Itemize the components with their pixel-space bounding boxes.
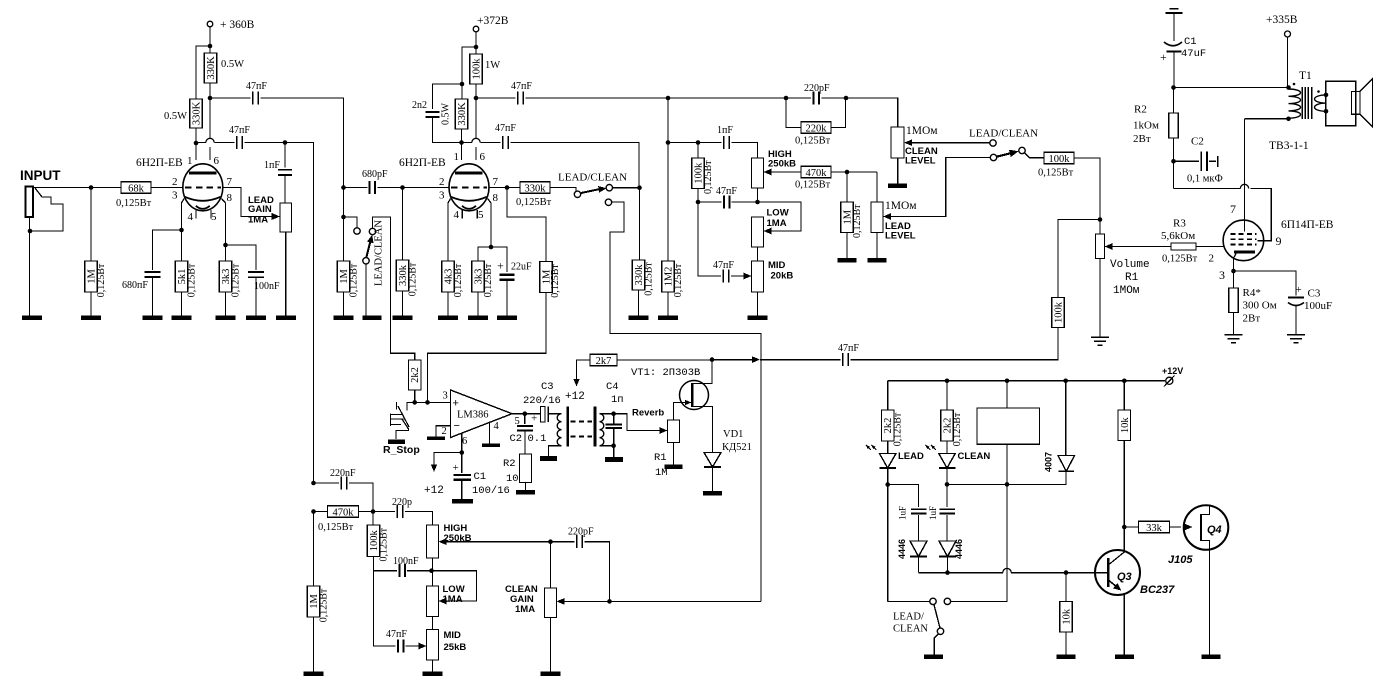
grid wire stage2 xyxy=(403,187,450,189)
svg-text:5: 5 xyxy=(211,211,217,223)
ground CLEAN GAIN pot xyxy=(541,672,561,677)
svg-text:LEAD: LEAD xyxy=(898,451,924,462)
svg-text:0,125Вт: 0,125Вт xyxy=(952,412,963,446)
node B+ output filter xyxy=(1171,85,1176,90)
volume wiper xyxy=(1105,243,1113,250)
switch4 lever xyxy=(934,605,940,628)
svg-text:2: 2 xyxy=(172,176,178,188)
resistor 3k3 cathode B stage1 xyxy=(225,245,227,261)
chassis ground above C1 xyxy=(1166,12,1183,14)
svg-text:VT1: 2П303В: VT1: 2П303В xyxy=(631,367,700,379)
terminal +335V xyxy=(1285,31,1291,37)
svg-text:4: 4 xyxy=(494,421,500,432)
ground CLEAN LEVEL pot xyxy=(888,184,907,189)
lead level wiper xyxy=(883,213,891,220)
resistor 1M lead level node xyxy=(846,172,848,202)
Q3 collector xyxy=(1108,527,1124,565)
svg-text:0,1 мкФ: 0,1 мкФ xyxy=(1187,174,1223,185)
resistor 330k to ground (lead node) xyxy=(639,188,641,260)
svg-text:LEAD/CLEAN: LEAD/CLEAN xyxy=(374,220,385,286)
switch3 contact a xyxy=(990,140,996,146)
node clean mix xyxy=(607,599,612,604)
wire filter to transformer xyxy=(1174,87,1289,89)
resistor 1M stage2 output xyxy=(540,262,553,293)
node LED clean bottom xyxy=(945,482,950,487)
svg-text:1МОм: 1МОм xyxy=(885,200,917,212)
ground R2 xyxy=(516,490,535,495)
node base 10k xyxy=(1064,570,1069,575)
svg-text:1МОм: 1МОм xyxy=(1113,285,1140,297)
svg-text:LEVEL: LEVEL xyxy=(885,231,916,242)
node 220k left xyxy=(784,96,789,101)
wire led clean to relay node xyxy=(947,483,1007,485)
svg-text:LEAD/CLEAN: LEAD/CLEAN xyxy=(558,172,627,184)
lead gain wiper arrow xyxy=(272,213,281,220)
resistor 2k2 LED clean xyxy=(946,381,948,410)
switch1 output wire to lm386 node xyxy=(373,217,415,360)
node rail 4007 xyxy=(1063,379,1068,384)
switch1 lever xyxy=(366,237,371,258)
svg-text:300 Ом: 300 Ом xyxy=(1243,300,1277,312)
svg-text:470k: 470k xyxy=(333,507,355,518)
node plate B stage1 xyxy=(208,96,213,101)
svg-text:1МОм: 1МОм xyxy=(906,125,938,137)
svg-text:100uF: 100uF xyxy=(1304,300,1332,312)
node 220k right xyxy=(844,96,849,101)
wire screen feed with hop xyxy=(1174,188,1241,190)
potentiometer R1 1M reverb xyxy=(668,420,680,443)
node clean feed top xyxy=(311,481,316,486)
svg-text:1МА: 1МА xyxy=(248,215,268,226)
svg-text:9: 9 xyxy=(1276,234,1282,248)
ground C1 xyxy=(452,499,473,504)
switch4 contact c xyxy=(937,628,943,634)
svg-text:0,125Вт: 0,125Вт xyxy=(186,263,197,297)
svg-text:J105: J105 xyxy=(1168,554,1193,566)
node B+ stage1 xyxy=(208,44,213,49)
svg-text:R1: R1 xyxy=(654,452,667,464)
ground 4k3 xyxy=(438,316,458,321)
svg-text:20kВ: 20kВ xyxy=(771,271,794,282)
svg-text:47uF: 47uF xyxy=(1181,48,1206,60)
svg-text:7: 7 xyxy=(227,176,233,188)
svg-text:100k: 100k xyxy=(472,58,483,80)
svg-text:220pF: 220pF xyxy=(568,527,594,538)
wire lead line xyxy=(668,142,698,144)
node lm386 out xyxy=(523,411,528,416)
svg-text:Volume: Volume xyxy=(1110,259,1150,271)
svg-text:3: 3 xyxy=(439,190,445,202)
svg-text:0,125Вт: 0,125Вт xyxy=(852,204,863,238)
resistor 330k 0.5W right (stage1) xyxy=(204,53,217,83)
pin 6 lead stage1 xyxy=(209,98,211,138)
svg-text:220nF: 220nF xyxy=(330,468,356,479)
svg-text:КД521: КД521 xyxy=(722,442,752,453)
switch3 contact b xyxy=(990,154,996,160)
relay K1 xyxy=(1006,381,1008,408)
input jack sleeve wire xyxy=(29,217,31,316)
svg-text:0,125Вт: 0,125Вт xyxy=(318,522,354,533)
switch2 clean path wire xyxy=(610,202,761,601)
svg-text:2k7: 2k7 xyxy=(596,356,612,367)
svg-text:1W: 1W xyxy=(485,60,500,71)
svg-text:680pF: 680pF xyxy=(362,169,388,180)
ground 330k grid stage2 xyxy=(393,316,413,321)
resistor 330k grid stage2 xyxy=(402,188,404,261)
node low top clean xyxy=(429,568,434,573)
svg-text:3: 3 xyxy=(172,190,178,202)
node cathode A xyxy=(179,228,184,233)
resistor 100k lead stack xyxy=(697,143,699,159)
svg-text:1kОм: 1kОм xyxy=(1133,120,1159,132)
svg-text:0.5W: 0.5W xyxy=(441,102,452,125)
node 1nF tap xyxy=(283,140,288,145)
node switch1 feed xyxy=(341,215,346,220)
wire clean mix to reverb return line xyxy=(610,600,762,602)
svg-text:5: 5 xyxy=(478,209,484,221)
svg-text:330k: 330k xyxy=(525,183,547,194)
wire 2k7 to +12 xyxy=(577,360,591,381)
node plate stage2 (pin6) xyxy=(474,96,479,101)
svg-text:47пF: 47пF xyxy=(716,186,737,197)
switch1 ground wire xyxy=(365,264,367,316)
svg-text:0,125Вт: 0,125Вт xyxy=(703,160,714,194)
terminal +360V xyxy=(207,21,213,27)
svg-text:0,125Вт: 0,125Вт xyxy=(116,198,152,209)
capacitor 100nF cathode bypass B xyxy=(226,245,257,270)
switch2 contact b xyxy=(606,185,612,191)
svg-text:ТВ3-1-1: ТВ3-1-1 xyxy=(1269,140,1309,152)
svg-text:100nF: 100nF xyxy=(254,281,280,292)
svg-text:47пF: 47пF xyxy=(495,123,516,134)
ground 10k base xyxy=(1057,654,1076,659)
svg-text:22uF: 22uF xyxy=(511,262,532,273)
svg-text:+372В: +372В xyxy=(477,15,509,27)
ground R_Stop xyxy=(388,440,405,445)
ground 5k1 xyxy=(172,316,192,321)
node B+ stage2 xyxy=(474,45,479,50)
switch1 contact a xyxy=(354,228,360,234)
LED LEAD xyxy=(866,445,871,450)
node cathode B stage2 xyxy=(489,245,494,250)
resistor 100k volume feed xyxy=(1044,152,1074,164)
switch3 output wire xyxy=(1025,153,1045,158)
svg-text:25kВ: 25kВ xyxy=(444,642,467,653)
pin 1 lead stage1 xyxy=(195,143,197,160)
svg-text:6: 6 xyxy=(462,436,467,447)
svg-text:10k: 10k xyxy=(1062,608,1073,625)
svg-text:3: 3 xyxy=(1219,268,1225,282)
svg-text:3: 3 xyxy=(443,391,448,402)
svg-text:4: 4 xyxy=(454,209,460,221)
pin 6 lead stage2 xyxy=(475,98,477,138)
node LED lead bottom xyxy=(885,482,890,487)
node input grid xyxy=(89,185,94,190)
wire to lead/clean switch1 xyxy=(344,188,358,228)
svg-text:0,125Вт: 0,125Вт xyxy=(1038,168,1074,179)
svg-text:1: 1 xyxy=(454,151,460,163)
svg-text:+: + xyxy=(531,413,537,425)
svg-text:1МА: 1МА xyxy=(767,218,787,229)
switch2 contact c xyxy=(605,199,611,205)
svg-text:4446: 4446 xyxy=(897,539,907,559)
svg-text:+12V: +12V xyxy=(1162,366,1183,376)
svg-text:330K: 330K xyxy=(192,101,203,125)
node lead stack input xyxy=(696,140,701,145)
svg-text:0,125Вт: 0,125Вт xyxy=(516,197,552,208)
node relay bottom xyxy=(1005,482,1010,487)
node rail 2k2 clean xyxy=(945,379,950,384)
resistor 330k 0.5W left (stage1) xyxy=(190,99,203,128)
svg-text:68k: 68k xyxy=(128,183,145,194)
svg-text:33k: 33k xyxy=(1146,523,1163,534)
resistor 2k7 xyxy=(590,354,617,366)
svg-text:7: 7 xyxy=(1230,202,1236,216)
node lead signal xyxy=(637,185,642,190)
resistor 220k xyxy=(786,98,801,128)
svg-text:CLEAN: CLEAN xyxy=(958,451,991,462)
svg-text:LOW: LOW xyxy=(767,208,789,219)
wire 330k to switch2 xyxy=(550,188,576,192)
node secondary hot xyxy=(611,411,616,416)
resistor 2k2 LED lead xyxy=(887,381,889,410)
svg-text:7: 7 xyxy=(493,176,499,188)
wire 68k to grid pin2 xyxy=(151,187,183,189)
node 680pF in xyxy=(341,185,346,190)
svg-text:4: 4 xyxy=(188,211,194,223)
resistor 100k mix xyxy=(1052,298,1065,328)
resistor 10k collector xyxy=(1123,381,1125,410)
wire plate-A line stage2 with hop xyxy=(462,142,472,144)
node primary bottom xyxy=(1286,117,1291,122)
ground 330k lead node xyxy=(629,316,649,321)
speaker xyxy=(1326,81,1356,126)
switch4 to ground xyxy=(934,634,938,655)
switch3 contact c xyxy=(1019,147,1025,153)
resistor 5k1 cathode A xyxy=(175,261,188,292)
svg-text:8: 8 xyxy=(227,192,233,204)
svg-text:−: − xyxy=(454,420,460,432)
switch2 wire to node xyxy=(613,187,640,189)
node rail relay xyxy=(1005,379,1010,384)
clean gain wiper xyxy=(557,598,565,605)
svg-text:+335В: +335В xyxy=(1266,14,1298,26)
svg-text:C4: C4 xyxy=(606,381,619,393)
svg-text:4007: 4007 xyxy=(1044,452,1054,472)
svg-text:C3: C3 xyxy=(541,381,554,393)
svg-text:5,6kОм: 5,6kОм xyxy=(1161,230,1195,242)
svg-text:R3: R3 xyxy=(1173,218,1186,230)
transformer TR1 core xyxy=(566,407,569,447)
ground 680nF xyxy=(143,316,163,321)
wire reverb mix to volume line xyxy=(712,359,753,361)
ground 100nF xyxy=(246,316,266,321)
transformer T1 core xyxy=(1301,87,1303,119)
ground MID clean xyxy=(423,672,443,677)
resistor R2 10 xyxy=(520,454,532,483)
svg-text:C1: C1 xyxy=(1184,36,1197,48)
node volume top xyxy=(1098,217,1103,222)
node 2n2 top xyxy=(460,82,465,87)
node lead level top xyxy=(845,170,850,175)
svg-text:100k: 100k xyxy=(1054,301,1065,323)
terminal +372V xyxy=(473,26,479,32)
resistor 10k base xyxy=(1065,573,1067,602)
wire input to R 68k xyxy=(33,187,121,189)
high clean wiper xyxy=(439,538,447,545)
ground switch1 xyxy=(363,316,382,321)
resistor 2k2 lm386 input xyxy=(408,360,421,390)
svg-text:C1: C1 xyxy=(474,471,487,483)
svg-text:LEAD/CLEAN: LEAD/CLEAN xyxy=(969,128,1038,140)
svg-text:LEAD/: LEAD/ xyxy=(893,612,924,623)
svg-text:1МА: 1МА xyxy=(443,594,463,605)
svg-text:LEVEL: LEVEL xyxy=(905,156,936,167)
ground 1M2 xyxy=(658,316,678,321)
ground 1M input xyxy=(81,316,101,321)
svg-text:1пF: 1пF xyxy=(717,125,733,136)
svg-text:R2: R2 xyxy=(503,458,516,470)
resistor 1M grid return stage2 xyxy=(343,217,345,261)
ground switch4 xyxy=(924,655,943,660)
wire +372V feed xyxy=(475,32,477,54)
Q4 drain stub xyxy=(1201,505,1210,515)
wire 100k mix to volume xyxy=(1058,220,1100,298)
node lead low top xyxy=(755,200,760,205)
svg-text:100/16: 100/16 xyxy=(472,485,510,497)
svg-text:47пF: 47пF xyxy=(511,81,532,92)
svg-text:0,125Вт: 0,125Вт xyxy=(453,263,464,297)
svg-text:2: 2 xyxy=(439,176,445,188)
wire LED lead node down xyxy=(887,485,889,602)
svg-text:220pF: 220pF xyxy=(804,83,830,94)
ground 1M clean xyxy=(304,672,324,677)
lm386 pin4 ground xyxy=(489,423,491,444)
wire 2k7 to mix line xyxy=(617,359,712,361)
svg-text:2n2: 2n2 xyxy=(412,100,427,111)
resistor 330k 0.5W stage2 xyxy=(455,99,468,129)
svg-text:0,125Вт: 0,125Вт xyxy=(319,588,330,622)
svg-text:47пF: 47пF xyxy=(838,343,859,354)
ground R1 reverb pot xyxy=(665,464,683,469)
svg-text:CLEAN: CLEAN xyxy=(893,624,928,635)
VT1 drain wire xyxy=(692,360,712,384)
svg-text:+: + xyxy=(453,398,459,410)
svg-text:1МА: 1МА xyxy=(515,604,535,615)
svg-text:220/16: 220/16 xyxy=(523,395,561,407)
node stage2 output xyxy=(505,185,510,190)
switch2 contact a xyxy=(574,191,580,197)
wire pin7 stage2 output xyxy=(489,187,520,189)
wire plate-A line with hop over pin6 xyxy=(196,142,206,144)
node lead stack mid xyxy=(696,200,701,205)
svg-text:C2: C2 xyxy=(1191,136,1204,148)
node transformer primary top xyxy=(1286,85,1291,90)
svg-text:470k: 470k xyxy=(806,168,828,179)
svg-text:8: 8 xyxy=(493,192,499,204)
resistor 33k xyxy=(1124,526,1138,528)
high lead wiper xyxy=(764,169,772,176)
svg-text:C2: C2 xyxy=(510,433,523,445)
svg-text:0,125Вт: 0,125Вт xyxy=(96,263,107,297)
svg-text:10: 10 xyxy=(506,473,519,485)
svg-text:100k: 100k xyxy=(1049,154,1071,165)
svg-text:2: 2 xyxy=(1209,253,1215,265)
ground R4 xyxy=(1225,334,1243,336)
ground LEAD LEVEL pot xyxy=(868,258,887,263)
VT1 source wire xyxy=(692,407,712,453)
wire pin7 to lead gain pot xyxy=(223,188,272,217)
svg-text:0.5W: 0.5W xyxy=(164,111,187,122)
svg-text:1пF: 1пF xyxy=(264,160,280,171)
switch3 lever xyxy=(997,153,1014,157)
ground C3 output xyxy=(1287,334,1305,336)
clean level wiper xyxy=(904,139,912,146)
node R2 bottom xyxy=(1171,159,1176,164)
node plate A stage2 xyxy=(459,140,464,145)
ground VD1 xyxy=(703,491,722,496)
svg-text:R4*: R4* xyxy=(1243,287,1261,299)
ground MID lead xyxy=(748,316,768,321)
svg-text:0,125Вт: 0,125Вт xyxy=(348,263,359,297)
node 680pF out xyxy=(400,185,405,190)
resistor 470k lead xyxy=(801,166,831,178)
svg-text:Q3: Q3 xyxy=(1117,571,1132,583)
svg-text:+12: +12 xyxy=(565,391,585,403)
svg-text:10k: 10k xyxy=(1120,417,1131,434)
svg-text:6Н2П-ЕВ: 6Н2П-ЕВ xyxy=(136,157,183,169)
svg-text:2Вт: 2Вт xyxy=(1133,133,1151,145)
resistor 100k clean stack xyxy=(372,512,374,526)
pin7 anode lead xyxy=(1244,119,1246,232)
svg-text:0,125Вт: 0,125Вт xyxy=(407,262,418,296)
svg-text:BC237: BC237 xyxy=(1140,584,1175,596)
svg-text:0,125Вт: 0,125Вт xyxy=(230,263,241,297)
svg-text:+: + xyxy=(453,462,459,474)
ground 3k3 stage1 xyxy=(216,316,236,321)
svg-text:+ 360В: + 360В xyxy=(220,19,255,31)
svg-text:6: 6 xyxy=(214,155,220,167)
svg-text:VD1: VD1 xyxy=(723,429,743,440)
svg-text:220k: 220k xyxy=(806,123,828,134)
svg-text:1: 1 xyxy=(187,155,193,167)
cathode lead B stage1 xyxy=(222,199,226,246)
wire R1 to VT1 gate xyxy=(674,403,681,421)
node 470k right xyxy=(371,509,376,514)
svg-text:Reverb: Reverb xyxy=(632,408,664,419)
Q4 source wire xyxy=(1201,541,1210,655)
low clean wiper loop xyxy=(432,571,477,601)
pin9 screen wire xyxy=(1250,189,1271,241)
svg-text:INPUT: INPUT xyxy=(20,168,61,183)
ground Q3 emitter xyxy=(1115,654,1134,659)
capacitor 22uF cathode bypass stage2 xyxy=(491,247,507,272)
svg-text:+: + xyxy=(1160,50,1167,64)
ground 1M lead node xyxy=(838,258,857,263)
node jack sleeve xyxy=(28,229,33,234)
svg-text:47пF: 47пF xyxy=(229,125,250,136)
node lm386 plus input xyxy=(412,400,417,405)
svg-text:0,125Вт: 0,125Вт xyxy=(795,136,831,147)
svg-text:680пF: 680пF xyxy=(122,280,148,291)
svg-text:6П14П-ЕВ: 6П14П-ЕВ xyxy=(1281,219,1334,231)
ground TR1 primary xyxy=(540,456,557,461)
svg-text:1uF: 1uF xyxy=(928,506,938,520)
ground TR1 secondary xyxy=(605,457,623,462)
transformer TR1 primary xyxy=(557,414,561,446)
resistor 3k3 stage2 xyxy=(478,247,491,261)
node lead feed mid xyxy=(666,140,671,145)
